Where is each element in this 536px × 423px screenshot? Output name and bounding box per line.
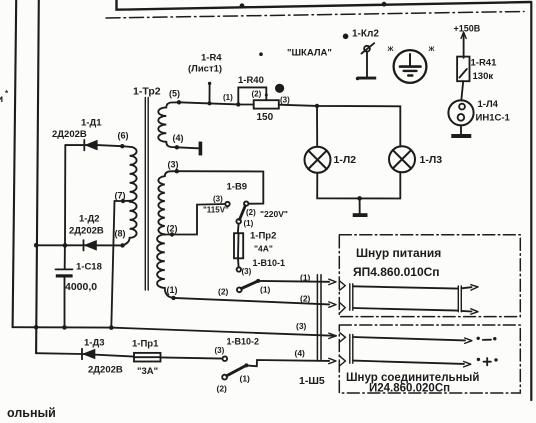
wire: L2 top xyxy=(316,106,318,147)
frame: top box solid line xyxy=(117,0,532,10)
svg-text:1-С18: 1-С18 xyxy=(76,262,102,273)
wire: D1 anode vertical xyxy=(64,145,66,245)
svg-text:1-Пр1: 1-Пр1 xyxy=(132,339,159,350)
svg-text:ЯП4.860.010Сп: ЯП4.860.010Сп xyxy=(353,265,440,279)
wire: R40 tap bracket xyxy=(238,87,266,104)
svg-text:1-Кл2: 1-Кл2 xyxy=(352,29,379,40)
big dot above R40 xyxy=(275,84,284,93)
lamp L3 xyxy=(389,146,415,172)
svg-text:1-Д2: 1-Д2 xyxy=(79,214,100,225)
node 3 xyxy=(175,169,179,173)
svg-text:1-Л3: 1-Л3 xyxy=(420,154,443,166)
svg-text:И24.860.020Сп: И24.860.020Сп xyxy=(369,383,450,395)
node dot on top line xyxy=(240,3,245,8)
dot near SHKALA xyxy=(259,52,263,56)
svg-text:(2): (2) xyxy=(246,208,256,217)
svg-text:(8): (8) xyxy=(115,229,126,239)
svg-text:(2): (2) xyxy=(252,90,262,99)
svg-text:(3): (3) xyxy=(215,346,225,355)
junction: bus2-D2 xyxy=(34,243,39,248)
ground: L4 chassis xyxy=(460,125,462,134)
wire: pin1 to connector xyxy=(258,280,329,283)
cable symbol box2 xyxy=(340,333,498,367)
svg-text:2Д202В: 2Д202В xyxy=(52,129,87,140)
svg-text:1-R4: 1-R4 xyxy=(201,53,222,64)
svg-text:Ж: Ж xyxy=(387,46,394,53)
wire: tap 2 to V9 115V xyxy=(165,204,225,235)
svg-text:1-В10-2: 1-В10-2 xyxy=(227,337,260,347)
svg-text:1-В10-1: 1-В10-1 xyxy=(253,258,286,268)
terminal Kl2 xyxy=(357,43,376,79)
wire: tap 3 to V9 220V xyxy=(177,171,263,204)
polarity mark plus xyxy=(477,358,480,361)
svg-text:2Д202В: 2Д202В xyxy=(69,226,104,237)
diode D1 xyxy=(84,140,97,151)
svg-text:(3): (3) xyxy=(168,160,179,170)
transformer T1 core xyxy=(144,98,146,291)
svg-text:Ж: Ж xyxy=(428,46,435,53)
svg-text:"3А": "3А" xyxy=(137,366,158,377)
svg-text:и: и xyxy=(0,94,3,105)
svg-text:(3): (3) xyxy=(242,267,252,276)
svg-text:(1): (1) xyxy=(223,93,233,102)
wire: tap 7 down xyxy=(111,201,123,328)
junction: R40 left node xyxy=(236,102,240,106)
wire: bottom rail (to pin 3) xyxy=(13,327,336,336)
svg-text:(6): (6) xyxy=(118,131,129,141)
polarity mark minus xyxy=(477,337,480,340)
svg-text:2Д202В: 2Д202В xyxy=(88,365,123,376)
svg-text:"115V": "115V" xyxy=(203,206,229,215)
wire: diode D2 branch xyxy=(36,244,122,246)
svg-text:(3): (3) xyxy=(213,195,223,204)
junction: tap7 x rail xyxy=(109,325,114,330)
resistor R40 xyxy=(254,100,279,108)
svg-text:(2): (2) xyxy=(217,384,228,394)
svg-text:1-Д1: 1-Д1 xyxy=(81,118,102,129)
transformer winding 7-8 (secondary bottom) xyxy=(123,202,137,246)
svg-text:(Лист1): (Лист1) xyxy=(188,64,222,75)
wire: pin3 arrow xyxy=(329,333,336,338)
transformer winding 3-2 (primary top) xyxy=(158,171,176,234)
node 7 xyxy=(121,199,125,203)
lamp L4 neon xyxy=(448,100,473,125)
box: power cord (dash-dot) xyxy=(339,235,520,317)
switch V9 xyxy=(225,201,248,223)
svg-text:(2): (2) xyxy=(300,294,311,304)
wire: pin2 to connector xyxy=(174,298,330,305)
junction: lamp ground xyxy=(357,196,362,201)
wire: R40 to lamps xyxy=(279,105,401,147)
node 4 xyxy=(175,145,179,149)
svg-text:"220V": "220V" xyxy=(260,209,288,219)
fuse F1 (1-Pr1) xyxy=(134,353,161,362)
svg-text:1-Л4: 1-Л4 xyxy=(478,99,499,110)
ground: winding 4 chassis bar xyxy=(177,147,199,148)
capacitor C18 xyxy=(56,245,73,327)
wire: diode D1 branch xyxy=(65,145,122,146)
wire: V9 to fuse F2 xyxy=(237,224,240,234)
connector Sh5 double bars xyxy=(316,275,318,359)
wire: pin4 to connector xyxy=(246,360,329,366)
fuse F2 (1-Pr2) xyxy=(234,233,243,258)
svg-text:"4А": "4А" xyxy=(254,244,273,254)
svg-text:1-Тр2: 1-Тр2 xyxy=(133,86,161,98)
svg-text:1-Пр2: 1-Пр2 xyxy=(250,231,276,242)
junction: R4 stub xyxy=(208,101,212,105)
svg-text:(4): (4) xyxy=(173,133,184,143)
svg-text:(2): (2) xyxy=(218,287,229,297)
svg-text:(5): (5) xyxy=(169,89,180,99)
svg-text:(1): (1) xyxy=(260,285,271,295)
junction: C18 x rail xyxy=(62,325,67,330)
+150V arrow xyxy=(461,32,466,58)
svg-text:(7): (7) xyxy=(115,191,126,201)
node 5 xyxy=(177,100,181,104)
small dot right of earth xyxy=(356,77,360,81)
wire: D3 branch xyxy=(36,353,134,356)
wire: lamp bottoms xyxy=(317,172,400,198)
svg-text:1-R41: 1-R41 xyxy=(471,58,498,69)
junction: D1/D2/C18 node xyxy=(63,243,68,248)
junction: bus2 x rail xyxy=(34,325,39,330)
svg-text:4000,0: 4000,0 xyxy=(65,281,97,293)
svg-text:150: 150 xyxy=(257,112,274,123)
svg-text:1-R40: 1-R40 xyxy=(238,75,264,86)
node 6 xyxy=(120,144,124,148)
switch V10-2 xyxy=(222,356,248,379)
svg-text:1-В9: 1-В9 xyxy=(227,182,248,193)
transformer winding 6-7 (secondary top) xyxy=(122,146,136,201)
wire: F1 to switch V10-2 xyxy=(161,357,223,358)
svg-text:1-Ш5: 1-Ш5 xyxy=(299,375,325,387)
cable symbol box1 xyxy=(340,281,478,314)
svg-text:(2): (2) xyxy=(167,224,178,234)
wire: left bus 2 xyxy=(36,0,39,353)
transformer winding 2-1 (primary bottom) xyxy=(157,235,173,298)
protective earth symbol xyxy=(394,50,427,83)
wire: top lamp feed xyxy=(179,102,254,104)
node dot on top line xyxy=(382,2,387,7)
ground: lamps chassis xyxy=(359,198,361,213)
svg-text:+150В: +150В xyxy=(454,24,481,34)
node 2 xyxy=(170,232,174,236)
svg-text:130к: 130к xyxy=(473,71,494,82)
chain dash-dot boundary line xyxy=(106,12,524,19)
frame: right edge vertical line xyxy=(530,2,532,400)
svg-text:(4): (4) xyxy=(295,348,306,358)
svg-text:(1): (1) xyxy=(300,273,311,283)
svg-text:(1): (1) xyxy=(240,374,251,384)
node 1 xyxy=(171,296,175,300)
svg-text:(1): (1) xyxy=(244,219,254,228)
svg-text:1-Л2: 1-Л2 xyxy=(334,154,357,166)
node 8 xyxy=(120,243,124,247)
node dot left of Kl2 xyxy=(343,34,349,40)
wire: R41 to L4 xyxy=(461,81,463,100)
svg-text:Шнур питания: Шнур питания xyxy=(356,246,441,260)
svg-text:(1): (1) xyxy=(167,285,178,295)
resistor R41 xyxy=(457,57,469,82)
wire: R4 stub (to sheet 1) xyxy=(209,84,211,104)
svg-text:ольный: ольный xyxy=(7,406,56,420)
lamp L2 xyxy=(305,147,331,173)
svg-text:ИН1С-1: ИН1С-1 xyxy=(476,113,511,124)
svg-text:1-Д3: 1-Д3 xyxy=(84,338,105,349)
junction: lamp L2 branch xyxy=(315,104,319,108)
switch V10-1 xyxy=(237,267,261,292)
wire: left bus 1 xyxy=(13,0,17,327)
diode D2 xyxy=(84,240,97,251)
svg-text:(3): (3) xyxy=(296,321,307,331)
svg-text:(3): (3) xyxy=(280,96,290,105)
svg-text:"ШКАЛА": "ШКАЛА" xyxy=(287,48,332,59)
diode D3 xyxy=(82,349,95,360)
wire: F2 to contact 3 xyxy=(237,258,240,267)
box: connecting cord (dash-dot) xyxy=(339,325,520,393)
transformer winding 5-4 (lamp winding) xyxy=(158,102,179,147)
